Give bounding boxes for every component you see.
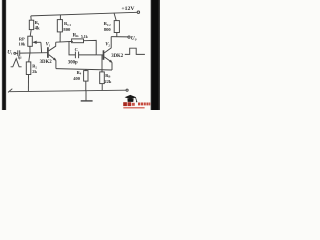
transistor V2 bbox=[104, 37, 113, 70]
svg-text:C: C bbox=[75, 47, 78, 52]
resistor R2 bbox=[26, 53, 31, 92]
svg-text:R1: R1 bbox=[35, 20, 40, 26]
svg-text:400: 400 bbox=[73, 76, 81, 81]
right black scan bar bbox=[150, 0, 160, 110]
wire +12V top rail bbox=[31, 12, 137, 16]
wire output node bbox=[111, 36, 128, 38]
ground symbol bbox=[81, 91, 93, 101]
svg-text:2k: 2k bbox=[32, 69, 37, 74]
wire emitter bus bbox=[56, 69, 112, 70]
svg-text:Ui: Ui bbox=[7, 50, 12, 56]
wire V1 collector node bbox=[56, 40, 73, 43]
svg-text:3DK2: 3DK2 bbox=[40, 60, 53, 65]
svg-text:V2: V2 bbox=[105, 42, 110, 47]
resistor RC1 bbox=[57, 15, 62, 42]
resistor RB bbox=[100, 55, 105, 90]
svg-text:5.1k: 5.1k bbox=[81, 35, 89, 39]
svg-text:22k: 22k bbox=[104, 79, 112, 84]
svg-text:800: 800 bbox=[104, 27, 112, 32]
left black scan bar bbox=[2, 0, 7, 110]
waveform input triangle pulse bbox=[11, 59, 22, 67]
svg-text:V1: V1 bbox=[46, 43, 51, 48]
svg-text:RK: RK bbox=[73, 33, 80, 38]
label R2 value bbox=[32, 64, 37, 75]
resistor R1 bbox=[29, 16, 33, 36]
label RC2 value bbox=[104, 21, 112, 32]
capacitor C 300p bbox=[75, 52, 96, 59]
resistor RP (potentiometer) bbox=[28, 36, 42, 53]
svg-text:800: 800 bbox=[63, 27, 71, 32]
label RB value bbox=[104, 73, 112, 84]
transistor V1 bbox=[48, 42, 56, 68]
node input terminal Ui bbox=[14, 52, 16, 54]
svg-text:+12V: +12V bbox=[121, 6, 135, 12]
svg-text:3DK2: 3DK2 bbox=[111, 54, 124, 59]
svg-text:R4: R4 bbox=[77, 70, 82, 76]
label RP value bbox=[19, 36, 26, 46]
watermark red text bbox=[123, 102, 150, 108]
label Re value bbox=[73, 70, 82, 81]
wire base line V2 bbox=[96, 54, 103, 56]
svg-text:10k: 10k bbox=[19, 41, 26, 46]
label RK value bbox=[73, 33, 89, 39]
capacitor 1u input coupling bbox=[16, 50, 20, 56]
watermark graduation cap bbox=[125, 95, 138, 102]
resistor RC2 bbox=[114, 13, 119, 37]
label RC1 value bbox=[63, 21, 71, 32]
label R1 value bbox=[35, 20, 40, 31]
resistor RK bbox=[72, 39, 97, 55]
wire drop to capacitor C bbox=[69, 42, 75, 55]
waveform output square pulse bbox=[125, 48, 145, 54]
wire base line V1 bbox=[20, 52, 48, 54]
node output terminal Uo bbox=[128, 36, 130, 38]
wire ground rail bbox=[8, 89, 126, 93]
svg-text:RB: RB bbox=[105, 73, 110, 79]
svg-text:4k: 4k bbox=[35, 27, 40, 32]
resistor Re bbox=[84, 69, 88, 90]
node ground rail end terminal bbox=[126, 89, 128, 91]
node +12V terminal bbox=[137, 11, 139, 13]
svg-text:300p: 300p bbox=[68, 60, 78, 65]
